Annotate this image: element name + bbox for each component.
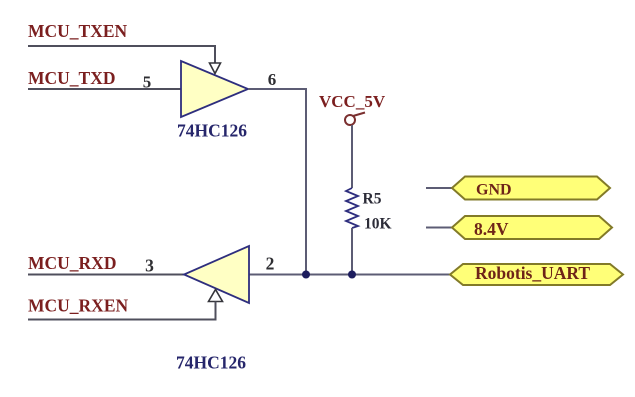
svg-text:2: 2 [266, 254, 275, 274]
wire R5 to node [351, 228, 353, 275]
resistor R5 zigzag [346, 188, 358, 228]
svg-text:MCU_RXD: MCU_RXD [28, 253, 116, 273]
wire stub 8.4V [426, 227, 452, 229]
svg-text:10K: 10K [364, 216, 392, 233]
svg-text:Robotis_UART: Robotis_UART [475, 263, 590, 283]
op-amp buffer U1A 74HC126 triangle [181, 61, 248, 117]
junction node A [302, 271, 310, 279]
enable arrow of U1B [209, 290, 223, 302]
wire pin 6 of U1A down to node [248, 89, 306, 275]
connector 8.4V [452, 216, 612, 239]
wire main horizontal to Robotis_UART [249, 274, 450, 276]
enable arrow of U1A [210, 63, 221, 74]
svg-text:MCU_RXEN: MCU_RXEN [28, 296, 128, 316]
connector Robotis_UART [450, 264, 623, 285]
svg-text:74HC126: 74HC126 [177, 121, 247, 141]
wire VCC to R5 [351, 125, 353, 188]
svg-text:74HC126: 74HC126 [176, 353, 246, 373]
wire MCU_RXD to pin 3 of U1B [28, 274, 184, 276]
svg-text:GND: GND [476, 182, 512, 199]
svg-text:6: 6 [268, 70, 277, 89]
svg-text:MCU_TXEN: MCU_TXEN [28, 21, 128, 41]
svg-text:MCU_TXD: MCU_TXD [28, 68, 116, 88]
op-amp buffer U1B 74HC126 triangle [184, 246, 249, 303]
svg-text:8.4V: 8.4V [474, 219, 509, 239]
svg-text:VCC_5V: VCC_5V [319, 92, 386, 111]
svg-text:3: 3 [145, 256, 154, 276]
svg-text:R5: R5 [363, 191, 382, 208]
power port VCC_5V circle [345, 115, 355, 125]
junction node B [348, 271, 356, 279]
svg-text:5: 5 [143, 73, 152, 92]
wire stub GND [426, 187, 452, 189]
connector GND [452, 177, 610, 200]
wire MCU_TXEN to enable of U1A [28, 46, 215, 64]
wire MCU_TXD to pin 5 of U1A [28, 88, 181, 90]
wire MCU_RXEN to enable of U1B [28, 302, 216, 320]
